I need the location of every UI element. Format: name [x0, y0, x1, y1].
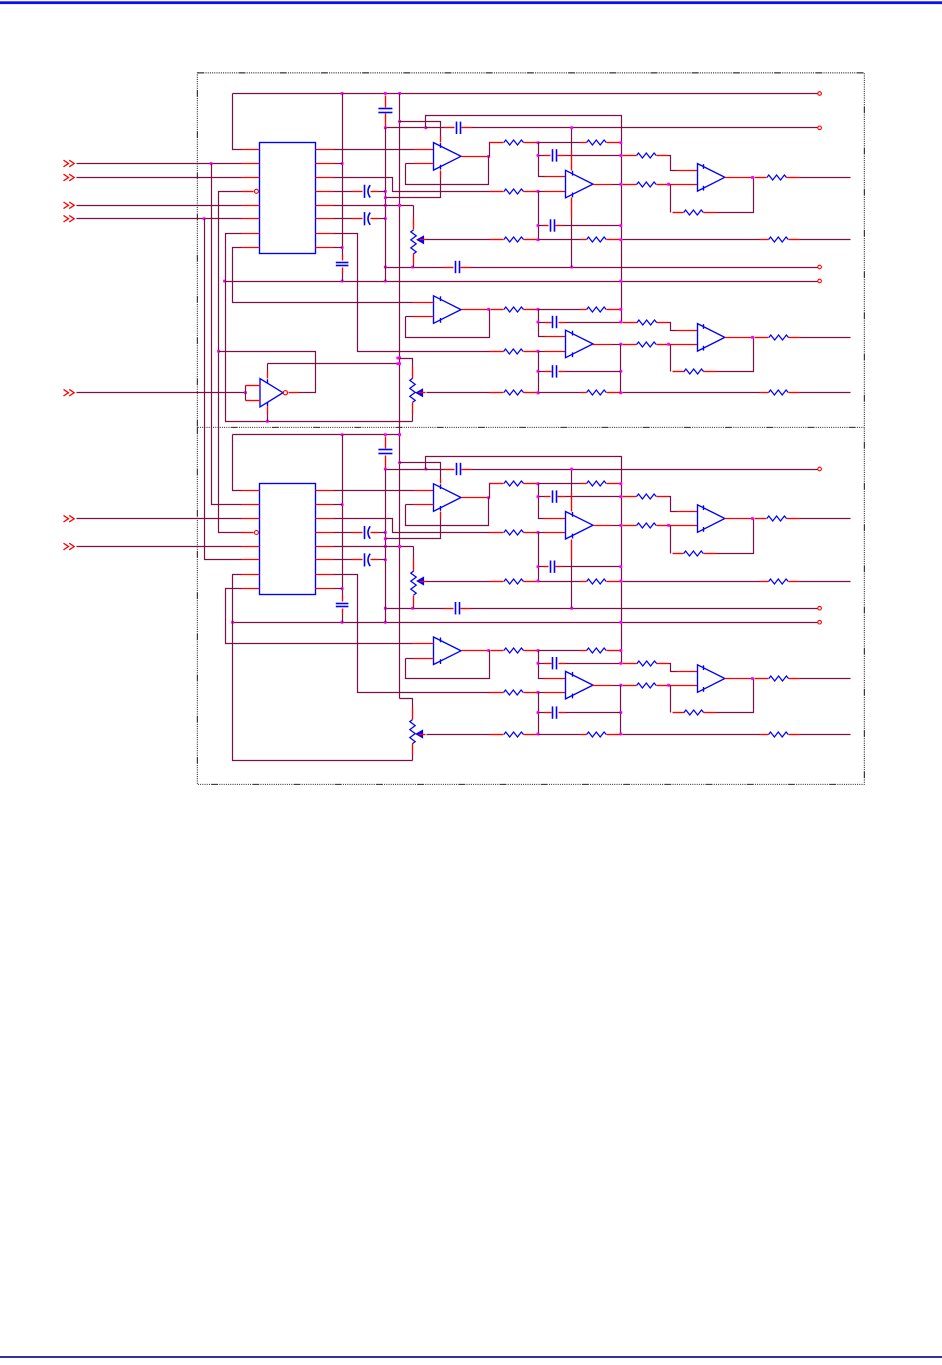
B1 resistor R15 left pin — [581, 239, 587, 241]
junction — [384, 468, 387, 471]
B1 wire r17 to r18 — [539, 309, 581, 311]
junction — [398, 120, 401, 123]
wire P5 to inverter — [77, 392, 246, 394]
wire pin10L ground loop — [226, 234, 413, 422]
junction — [537, 190, 540, 193]
B2 chip right pin 9 — [316, 588, 334, 590]
B2 resistor R25 — [769, 732, 789, 737]
B1 resistor R16 left pin — [760, 239, 769, 241]
B2 wire capB left — [539, 566, 544, 568]
B2 op-amp A5 +in pin — [545, 678, 566, 680]
B1 wire pin16 to buffer — [334, 149, 414, 151]
B2 capacitor C_c top pin — [342, 596, 344, 602]
B1 wire wiper row b — [539, 239, 581, 241]
B2 chip right pin 15 — [316, 504, 334, 506]
B1 capacitor C_f — [365, 212, 371, 225]
B2 resistor R22 — [769, 676, 789, 681]
B1 wire capA2 right — [566, 322, 621, 324]
B2 capacitor C1 left pin — [545, 496, 551, 498]
wire bus to potentiometer R13 — [400, 699, 413, 708]
B1 wire pin15 to bus — [334, 163, 343, 165]
B2 capacitor C2 left pin — [544, 566, 549, 568]
B2 resistor R17 right pin — [524, 650, 538, 652]
B2 wire A2 V- feed — [571, 560, 573, 609]
B1 capacitor C4 left pin — [545, 371, 552, 373]
junction — [384, 190, 387, 193]
B2 capacitor C_b — [456, 602, 460, 614]
B1 op-amp A4 -in pin — [414, 316, 434, 318]
junction — [537, 733, 540, 736]
B2 capacitor C_b left pin — [445, 608, 454, 610]
junction — [619, 580, 622, 583]
B2 capacitor C1 right pin — [558, 496, 566, 498]
junction — [424, 468, 427, 471]
B1 resistor R25 right pin — [789, 392, 800, 394]
B2 resistor R8 right pin — [657, 525, 669, 527]
port P3 input — [64, 202, 75, 209]
B1 wire A2 out to bus — [612, 184, 621, 186]
junction — [751, 176, 754, 179]
junction — [537, 711, 540, 714]
B2 resistor R18 right pin — [607, 650, 621, 652]
B2 wire output ch2 aux — [800, 734, 851, 736]
B1 op-amp A5 +in pin — [545, 336, 566, 338]
B2 potentiometer bottom pin — [413, 596, 415, 606]
junction — [619, 154, 622, 157]
junction — [398, 545, 401, 548]
B2 wire VDD rail — [426, 469, 445, 471]
junction — [487, 155, 490, 158]
B1 wire fb1 a — [406, 163, 414, 165]
junction — [384, 537, 387, 540]
junction — [411, 607, 414, 610]
wire P6 to chip2 — [77, 518, 242, 520]
B1 resistor R22 right pin — [789, 337, 800, 339]
B2 wire buffer V- feed — [386, 519, 441, 539]
B1 potentiometer wiper pin — [420, 239, 427, 241]
B1 wire C_f to bus — [379, 218, 386, 220]
B1 wire chip bypass bus lower — [342, 274, 344, 282]
B1 wire A2 V+ feed — [571, 128, 573, 151]
B2 wire pin15 to bus — [334, 504, 343, 506]
B2 wire VEE rail left — [386, 608, 445, 610]
B2 resistor R21 left pin — [673, 712, 685, 714]
B2 wire R7 to A3 — [669, 497, 677, 512]
B1 op-amp A1 +in pin — [414, 149, 434, 151]
B1 wire VCC rail — [233, 93, 818, 95]
wire P7 to chip2 — [77, 546, 242, 548]
B1 wire capB2 left — [539, 371, 545, 373]
B2 wire VDD rail right — [472, 469, 818, 471]
junction — [411, 266, 414, 269]
inverter out pin — [289, 392, 299, 394]
B2 chip left pin 1 — [242, 490, 260, 492]
wire P4 to chip — [77, 218, 242, 220]
B1 capacitor C_b — [456, 261, 460, 273]
B2 capacitor C_a — [457, 463, 461, 475]
wire pin10L2 ground loop — [233, 575, 413, 761]
B2 resistor R15 — [587, 579, 607, 584]
junction — [384, 196, 387, 199]
junction — [667, 684, 670, 687]
junction — [537, 224, 540, 227]
B1 potentiometer bottom pin — [413, 254, 415, 265]
junction — [384, 558, 387, 561]
B2 wire capB2 left — [539, 712, 545, 714]
B1 resistor R4 — [504, 349, 524, 354]
B1 wire pin12 to potentiometer — [334, 205, 414, 207]
inverter output bubble — [283, 391, 287, 395]
B1 resistor R20 right pin — [657, 344, 669, 346]
B2 wire pin13 to C_e — [334, 532, 352, 534]
B2 chip pin 4 bubble — [254, 531, 258, 535]
junction — [570, 266, 573, 269]
B2 capacitor C_d bottom pin — [385, 456, 387, 470]
B2 wire fb3 right — [717, 519, 754, 554]
B2 op-amp A3 +in pin — [677, 511, 698, 513]
junction — [487, 308, 490, 311]
B1 resistor R4 right pin — [524, 351, 537, 353]
B2 terminal VDD — [818, 467, 822, 471]
B2 wire C_e to bus — [379, 532, 386, 534]
B1 resistor R3 — [504, 189, 524, 194]
B2 op-amp V- pin — [440, 512, 442, 519]
B1 capacitor C4 — [553, 365, 557, 377]
B1 resistor R25 left pin — [760, 392, 769, 394]
B1 resistor R9 right pin — [704, 212, 717, 214]
B2 capacitor C_f right pin — [371, 559, 379, 561]
port P6 input — [64, 515, 75, 522]
B1 wire wiper2 row c — [623, 392, 760, 394]
B1 wire A5 out to bus — [612, 344, 621, 346]
junction — [341, 621, 344, 624]
B1 potentiometer2 top pin — [412, 367, 414, 379]
B2 wire C_f to bus — [379, 559, 386, 561]
B1 wire capB right — [562, 225, 621, 227]
B1 wire R5 to R6 — [539, 142, 581, 144]
B1 capacitor C_b right pin — [461, 267, 471, 269]
B1 op-amp A6 -in pin — [670, 344, 698, 346]
B1 capacitor C1 left pin — [545, 155, 551, 157]
B2 wire capB right — [562, 566, 621, 568]
B1 resistor R23 right pin — [524, 392, 537, 394]
B2 resistor R15 left pin — [581, 581, 587, 583]
junction — [619, 482, 622, 485]
junction — [398, 461, 401, 464]
B1 op-amp A2 V- pin — [571, 198, 573, 219]
B2 wire output ch2 — [800, 678, 851, 680]
B1 op-amp U1A — [434, 143, 462, 171]
B1 resistor R6 — [587, 140, 607, 145]
B2 resistor R4 left pin — [490, 692, 504, 694]
B1 potentiometer2 bottom pin — [412, 403, 414, 414]
B2 resistor R8 — [637, 523, 657, 528]
B2 potentiometer R13 — [410, 720, 423, 744]
junction — [341, 587, 344, 590]
B1 resistor R19 — [637, 320, 657, 325]
B2 resistor R16 left pin — [760, 581, 769, 583]
B1 op-amp A2 -in pin — [545, 191, 566, 193]
junction — [398, 204, 401, 207]
inverter +in pin — [246, 385, 261, 387]
B1 capacitor C_f left pin — [352, 218, 363, 220]
B1 capacitor C_f right pin — [371, 218, 379, 220]
B1 resistor R3 right pin — [524, 191, 537, 193]
junction — [398, 204, 401, 207]
B1 op-amp U3A — [434, 296, 462, 324]
B2 resistor R20 — [637, 683, 657, 688]
junction — [341, 162, 344, 165]
B2 wire capA2 left — [539, 663, 545, 665]
B2 op-amp A2 V+ pin — [571, 492, 573, 512]
junction — [384, 126, 387, 129]
junction — [619, 733, 622, 736]
junction — [537, 733, 540, 736]
dashed border block 1 — [197, 73, 864, 427]
B2 chip right pin 10 — [316, 574, 334, 576]
B1 op-amp A5 -in pin — [545, 351, 566, 353]
B2 wire to A2 -in — [539, 532, 545, 534]
B2 capacitor C3 right pin — [559, 663, 566, 665]
B1 resistor R8 left pin — [623, 184, 637, 186]
B1 wire filter node A — [539, 143, 545, 177]
B1 capacitor C3 left pin — [545, 322, 552, 324]
B2 resistor R24 left pin — [581, 734, 587, 736]
B1 wire A2 V- feed — [571, 219, 573, 268]
wire inverter out loop — [219, 352, 316, 393]
B1 chip right pin 12 — [316, 205, 334, 207]
B2 wire capA left — [539, 496, 545, 498]
B1 capacitor C_a right pin — [462, 127, 472, 129]
junction — [537, 370, 540, 373]
junction — [537, 321, 540, 324]
B1 terminal VCC — [818, 92, 822, 96]
B2 wire pin14 to filter R — [334, 519, 490, 533]
B2 chip left pin 2 — [242, 504, 260, 506]
wire inverter V+ a — [267, 364, 269, 372]
B1 chip right pin 11 — [316, 218, 334, 220]
junction — [619, 684, 622, 687]
B1 wire buffer out rise — [490, 143, 491, 157]
B2 wire capA2 right — [566, 663, 621, 665]
B2 resistor R17 left pin — [491, 650, 504, 652]
B2 resistor R25 right pin — [789, 734, 800, 736]
B2 potentiometer wiper pin — [420, 581, 427, 583]
B2 wire R19 to A6 — [669, 664, 677, 672]
B1 resistor R20 — [637, 342, 657, 347]
B2 chip right pin 14 — [316, 518, 334, 520]
B1 chip left pin 5 — [242, 205, 260, 207]
wire inverter V+ to bus — [268, 363, 398, 365]
B2 op-amp U5B — [566, 512, 594, 540]
B1 wire wiper2 row b — [539, 392, 581, 394]
junction — [667, 343, 670, 346]
B2 op-amp A4 -in pin — [414, 658, 434, 660]
B2 resistor R20 right pin — [657, 685, 669, 687]
B1 terminal VDD — [818, 126, 822, 130]
junction — [619, 141, 622, 144]
B2 resistor R10 — [767, 516, 787, 521]
B2 wire chip bypass bus upper — [342, 435, 344, 596]
B2 op-amp out pin — [462, 497, 488, 499]
B2 wire R5 to R6 — [539, 483, 581, 485]
B1 capacitor C_e right pin — [371, 191, 379, 193]
B2 wire fb6 left — [670, 686, 672, 713]
B1 resistor R22 left pin — [755, 337, 769, 339]
B1 resistor R6 left pin — [581, 142, 587, 144]
B1 resistor R8 — [637, 182, 657, 187]
junction — [266, 420, 269, 423]
B2 capacitor C_e left pin — [352, 532, 363, 534]
B1 resistor R24 right pin — [607, 392, 621, 394]
B2 wire VSS rail — [233, 622, 818, 624]
B1 resistor R14 left pin — [490, 239, 504, 241]
B2 potentiometer R12 — [411, 571, 424, 595]
B2 wire filter node A2 — [539, 651, 545, 679]
B1 resistor R7 right pin — [657, 155, 669, 157]
junction — [384, 433, 387, 436]
B1 resistor R9 left pin — [673, 212, 684, 214]
B2 op-amp A6 -in pin — [545, 532, 566, 534]
B1 resistor R9 — [684, 210, 704, 215]
B2 capacitor C_d — [378, 450, 392, 454]
B1 wire pot2 top feed — [398, 359, 413, 367]
B2 wire filter node A — [539, 484, 545, 519]
B2 resistor R14 left pin — [490, 581, 504, 583]
B1 capacitor C2 — [551, 219, 555, 231]
B1 capacitor C2 left pin — [544, 225, 549, 227]
junction — [244, 391, 247, 394]
junction — [537, 662, 540, 665]
B2 resistor R8 left pin — [623, 525, 637, 527]
B1 wire VDD rail left — [386, 127, 426, 129]
B1 capacitor C3 right pin — [559, 322, 566, 324]
B2 resistor R5 — [504, 481, 524, 486]
B2 wire A2 V+ feed — [571, 470, 573, 492]
wire pin9L2 to buffer2 — [226, 589, 413, 644]
B2 resistor R21 — [684, 710, 704, 715]
B1 resistor R8 right pin — [657, 184, 669, 186]
B2 op-amp A2 V- pin — [571, 540, 573, 560]
inverter V+ pin — [267, 372, 269, 379]
B2 resistor R19 right pin — [657, 663, 669, 665]
B2 wire pin9 to bus — [334, 588, 343, 590]
B1 wire output ch2 — [800, 337, 851, 339]
junction — [341, 246, 344, 249]
B1 wire filter output bus — [426, 116, 622, 322]
B2 resistor R23 right pin — [524, 734, 537, 736]
B2 resistor R5 right pin — [524, 483, 537, 485]
junction — [537, 350, 540, 353]
B2 wire wiper2 row a — [427, 734, 490, 736]
B1 resistor R7 left pin — [623, 155, 637, 157]
B2 resistor R20 left pin — [623, 685, 637, 687]
junction — [537, 238, 540, 241]
wire P2 to chip — [77, 177, 242, 179]
B1 chip right pin 9 — [316, 247, 334, 249]
B1 capacitor C_c top pin — [342, 255, 344, 261]
B1 wire wiper row a — [427, 239, 490, 241]
B2 capacitor C2 — [551, 561, 555, 573]
B1 resistor R10 left pin — [755, 177, 767, 179]
B1 chip left pin 3 — [242, 177, 260, 179]
B1 chip left pin 8 — [242, 247, 260, 249]
junction — [619, 495, 622, 498]
B2 chip left pin 7 — [242, 574, 260, 576]
B1 wire pot bottom — [413, 265, 415, 268]
B1 resistor R19 right pin — [657, 322, 669, 324]
B1 wire VDD rail right — [472, 127, 818, 129]
junction — [537, 308, 540, 311]
B2 op-amp V+ pin — [440, 479, 442, 484]
B2 op-amp U7B — [566, 671, 594, 699]
B2 wire fb4 loop — [406, 651, 490, 679]
B2 resistor R17 — [504, 648, 524, 653]
junction — [619, 711, 622, 714]
junction — [619, 621, 622, 624]
B1 wire filter node B2 — [538, 352, 540, 393]
B1 capacitor C2 right pin — [556, 225, 562, 227]
B1 resistor R10 right pin — [787, 177, 800, 179]
B2 wire VEE rail right — [471, 608, 818, 610]
junction — [341, 503, 344, 506]
B2 resistor R6 — [587, 481, 607, 486]
B1 wire pin13 to C_e — [334, 191, 352, 193]
B2 wire output bus 2 — [620, 686, 622, 735]
port P2 input — [64, 174, 75, 181]
B1 wire pot R11 top — [413, 206, 415, 218]
top blue rule — [0, 1, 942, 4]
B1 resistor R5 — [504, 140, 524, 145]
B2 resistor R7 — [637, 494, 657, 499]
B2 resistor R24 — [587, 732, 607, 737]
B2 capacitor C3 left pin — [545, 663, 552, 665]
junction — [537, 649, 540, 652]
junction — [424, 126, 427, 129]
B2 wire chip bypass bus lower — [342, 615, 344, 623]
B2 resistor R7 right pin — [657, 496, 669, 498]
B1 wire chip bypass bus upper — [342, 94, 344, 255]
B1 resistor R15 — [587, 237, 607, 242]
B2 chip left pin 6 — [242, 559, 260, 561]
wire pin9L to buffer2 — [233, 248, 413, 303]
B1 capacitor C_c — [336, 263, 349, 266]
B2 wire wiper2 row b — [539, 734, 581, 736]
B2 op-amp A2 +in pin — [545, 518, 566, 520]
B1 resistor R7 — [637, 153, 657, 158]
junction — [384, 204, 387, 207]
B2 op-amp U6A — [698, 505, 725, 533]
B1 capacitor C4 right pin — [559, 371, 566, 373]
junction — [537, 482, 540, 485]
B1 resistor R24 — [587, 390, 607, 395]
B2 chip left pin 5 — [242, 546, 260, 548]
B2 op-amp A4 +in pin — [413, 643, 434, 645]
B1 op-amp U2A — [698, 164, 725, 192]
B2 op-amp A6 -in pin — [670, 685, 698, 687]
B2 wire buffer V+ feed — [399, 463, 441, 479]
junction — [396, 362, 399, 365]
bottom blue rule — [0, 1356, 942, 1358]
B2 capacitor C_f left pin — [352, 559, 363, 561]
B2 op-amp A5 out pin — [593, 685, 612, 687]
B2 wire r17 to r18 — [539, 650, 581, 652]
B1 capacitor C3 — [553, 316, 557, 328]
B2 resistor R22 left pin — [755, 678, 769, 680]
B1 chip right pin 15 — [316, 163, 334, 165]
B1 resistor R23 left pin — [490, 392, 504, 394]
B1 capacitor C_b left pin — [445, 267, 454, 269]
